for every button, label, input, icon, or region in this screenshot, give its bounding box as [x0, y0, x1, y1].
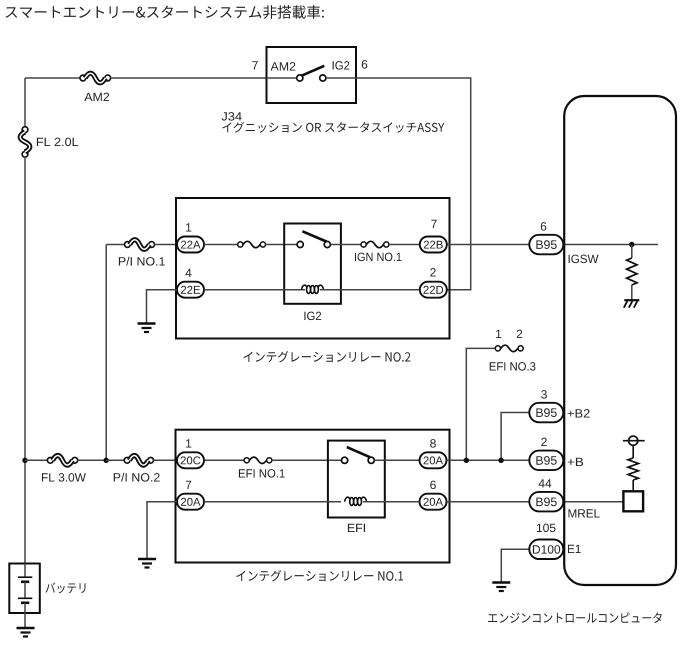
wire relay contact to 20A pin8 [374, 459, 419, 461]
label P/I NO.1 [119, 257, 165, 266]
wire fuse to 22A [154, 244, 177, 246]
label EFI [348, 524, 365, 532]
label integration relay no.1 [236, 570, 403, 581]
pin 6 label above [430, 481, 436, 490]
junction rail2 [104, 458, 109, 463]
pin 2 label above 22D [430, 268, 435, 276]
wire FL 3.0W to junction [77, 459, 106, 461]
pin 7 label [252, 61, 257, 69]
wire IGSW inside ecu [563, 244, 658, 246]
terminal B95 pin6 [529, 235, 563, 255]
wire 20A6 to ecu MREL [447, 501, 530, 503]
label +B2 [568, 409, 590, 417]
terminal 20A pin8 [420, 452, 447, 468]
wire to fusible link FL 3.0W [25, 459, 48, 461]
terminal 22D [420, 282, 447, 298]
label J34 [222, 112, 242, 121]
integration relay no.1 box [176, 430, 450, 563]
label IGSW [569, 255, 599, 264]
label AM2 terminal [271, 62, 296, 70]
wire into switch [267, 77, 297, 79]
wire 20A8 to ecu +B [447, 459, 530, 461]
terminal B95 +B2 [529, 403, 563, 423]
fuse EFI NO.1 [244, 457, 272, 463]
switch J34 contacts [297, 66, 326, 81]
wire MREL inside ecu [563, 501, 623, 503]
pin 8 label [430, 439, 436, 448]
label battery [46, 583, 86, 594]
label IG2 terminal [333, 61, 350, 70]
mrel driver square [623, 491, 643, 511]
pin 6 label [362, 60, 368, 69]
mrel resistor [628, 458, 638, 491]
wire +B2 to junction [501, 413, 529, 461]
terminal B95 +B [529, 451, 563, 471]
ground battery [17, 628, 35, 637]
pin 105 label [537, 524, 556, 533]
pin 7 label above 20A [186, 481, 191, 489]
wire coil to 20A pin6 [363, 501, 420, 503]
label engine control computer [488, 612, 662, 623]
internal fuse relay2 [238, 241, 266, 247]
label IG2 [304, 312, 321, 321]
resistor IGSW pulldown [627, 245, 637, 300]
junction efi no3 rail [464, 458, 469, 463]
chassis ground IGSW [624, 300, 640, 308]
label MREL [569, 509, 600, 517]
label FL 2.0L [37, 138, 78, 147]
ground relay1 [138, 559, 156, 568]
relay IG2 coil [302, 285, 324, 293]
pin 7 label above 22B [431, 220, 436, 228]
terminal 22B [420, 237, 447, 253]
wire fuse IGN NO.1 to 22B [389, 244, 420, 246]
ground relay2 [138, 324, 156, 333]
wire 20C to fuse EFI NO.1 [204, 459, 244, 461]
label E1 [568, 545, 581, 553]
pin 1 label [186, 223, 191, 231]
pin 2 label [517, 330, 522, 338]
terminal 22A [177, 237, 204, 253]
title text: smart entry & start system non-equipped vehicle [6, 5, 324, 19]
wire junction to fuse P/I NO.2 [106, 459, 124, 461]
wire left rail vertical [24, 78, 26, 127]
wire J34 pin6 down to 22D [356, 78, 471, 290]
terminal 20C [177, 452, 204, 468]
pin 6 label above B95 [541, 222, 547, 231]
fuse IGN NO.1 [361, 241, 389, 247]
label FL 3.0W [42, 473, 86, 482]
wire 20A7 coil row [204, 501, 341, 503]
pin 44 label [539, 479, 552, 487]
wire to fuse EFI NO.3 [466, 348, 495, 460]
pin 1 label above 20C [186, 439, 191, 447]
relay EFI coil [345, 497, 367, 505]
label ignition or starter switch assy [222, 122, 444, 133]
label EFI NO.1 [239, 469, 285, 478]
wire fuse EFI NO.1 to relay [272, 459, 342, 461]
fuse P/I NO.2 [124, 456, 153, 466]
fusible link FL 3.0W [47, 456, 77, 466]
terminal D100 E1 [529, 540, 563, 560]
terminal B95 MREL [529, 492, 563, 512]
wire coil to 22D [320, 289, 420, 291]
label +B [568, 458, 583, 466]
relay EFI box [328, 441, 385, 518]
ground E1 [492, 583, 510, 592]
wire 20A pin7 to ground [147, 502, 177, 558]
junction +B2 rail [498, 458, 503, 463]
wire fuse AM2 to switch J34 [110, 77, 266, 79]
ignition switch J34 box [267, 47, 357, 103]
relay IG2 box [284, 224, 341, 304]
wire fuse to 20C [153, 459, 177, 461]
wire 22E to ground [147, 290, 178, 323]
battery cells [18, 564, 32, 614]
label EFI NO.3 [490, 362, 536, 371]
wire from left rail to fuse AM2 [25, 77, 80, 79]
fuse EFI NO.3 [495, 345, 523, 351]
pin 1 label [496, 330, 501, 338]
wire battery to ground [24, 613, 26, 627]
wire rail2 up from junction [105, 245, 107, 461]
wire rail2 corner to fuse P/I NO.1 [106, 244, 125, 246]
wire out of switch [326, 77, 356, 79]
label AM2 [84, 93, 109, 101]
terminal 20A pin6 [420, 494, 447, 510]
label integration relay no.2 [244, 351, 411, 362]
wire E1 to ground [501, 549, 529, 581]
integration relay no.2 box [176, 198, 450, 339]
terminal 20A pin7 [177, 494, 204, 510]
fuse AM2 [80, 73, 111, 83]
wire internal fuse to relay coil box [266, 244, 298, 246]
ecu box engine control computer [564, 96, 676, 585]
junction IGSW [629, 242, 634, 247]
fusible link FL 2.0L [20, 127, 30, 158]
label P/I NO.2 [114, 473, 160, 482]
pin 4 label [185, 269, 191, 277]
wire 22A to internal fuse [204, 244, 238, 246]
terminal 22E [177, 282, 204, 298]
wire relay contact to box edge [330, 244, 361, 246]
pin 3 label [541, 390, 547, 399]
pin 2 label above +B [541, 438, 546, 446]
wire 22E coil row [204, 289, 305, 291]
wire 22B to ecu B95 pin6 [448, 244, 530, 246]
relay EFI contacts [342, 447, 375, 463]
fuse P/I NO.1 [125, 240, 155, 250]
relay IG2 contacts [297, 231, 330, 247]
wire left rail to battery [24, 157, 26, 564]
junction battery rail [22, 458, 27, 463]
mrel source circle [623, 436, 645, 458]
label IGN NO.1 [355, 253, 402, 262]
battery box [9, 564, 40, 614]
